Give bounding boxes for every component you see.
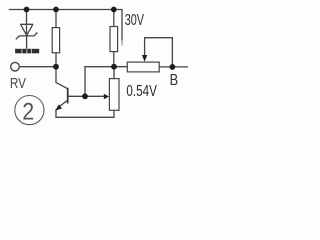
- wire: collector riser and diagonal: [56, 67, 68, 89]
- node dot base: [82, 93, 88, 99]
- wire: base node to wiper arrow of pot-V: [85, 95, 105, 97]
- svg-text:0.54V: 0.54V: [126, 81, 157, 99]
- node dot output B: [170, 64, 176, 70]
- node dot R2/pot-V junction: [111, 64, 117, 70]
- wire: RV terminal to node A: [19, 66, 56, 68]
- wire: riser down to base node: [84, 67, 86, 97]
- svg-text:30V: 30V: [125, 11, 145, 29]
- potentiometer P1 (horizontal) body: [127, 62, 159, 72]
- resistor R2: [110, 27, 118, 52]
- wire: base lead from transistor: [68, 95, 85, 97]
- resistor R1: [52, 28, 59, 53]
- ground (hatched bar): [15, 49, 39, 54]
- svg-text:2: 2: [22, 98, 34, 125]
- transistor Q1 emitter with arrow: [58, 100, 68, 107]
- wire: top 30V rail with right-end down stub: [10, 10, 123, 41]
- figure number circle 2: [15, 96, 44, 125]
- transistor Q1 bar: [67, 88, 69, 104]
- wire: R1 bottom lead: [55, 53, 57, 67]
- potentiometer P1 wiper arrowhead: [142, 55, 147, 62]
- potentiometer P2 (vertical) body: [109, 79, 119, 111]
- wire: R2 bottom lead: [113, 52, 115, 67]
- svg-text:RV: RV: [10, 75, 26, 92]
- wire: zener top lead (through triangle): [26, 10, 28, 36]
- node dot on rail at R1: [53, 7, 59, 13]
- terminal RV circle: [11, 62, 20, 71]
- wire: base rail from riser corner to pot-H left: [85, 66, 127, 68]
- zener diode D1: [16, 24, 38, 49]
- wire: pot-H right to output B edge: [159, 66, 188, 68]
- wire: R2 top lead: [113, 10, 115, 27]
- wire: emitter to bottom rail to pot-V bottom: [56, 110, 114, 117]
- svg-text:B: B: [170, 72, 179, 90]
- potentiometer P2 wiper arrowhead: [104, 94, 109, 99]
- node dot on rail at zener: [24, 7, 30, 13]
- wire: R1 top lead: [55, 10, 57, 28]
- node dot RV/R1/collector: [53, 64, 59, 70]
- wire: pot-H wiper loop: [145, 38, 173, 64]
- wire: pot-V top lead: [113, 67, 115, 79]
- node dot on rail at R2: [111, 7, 117, 13]
